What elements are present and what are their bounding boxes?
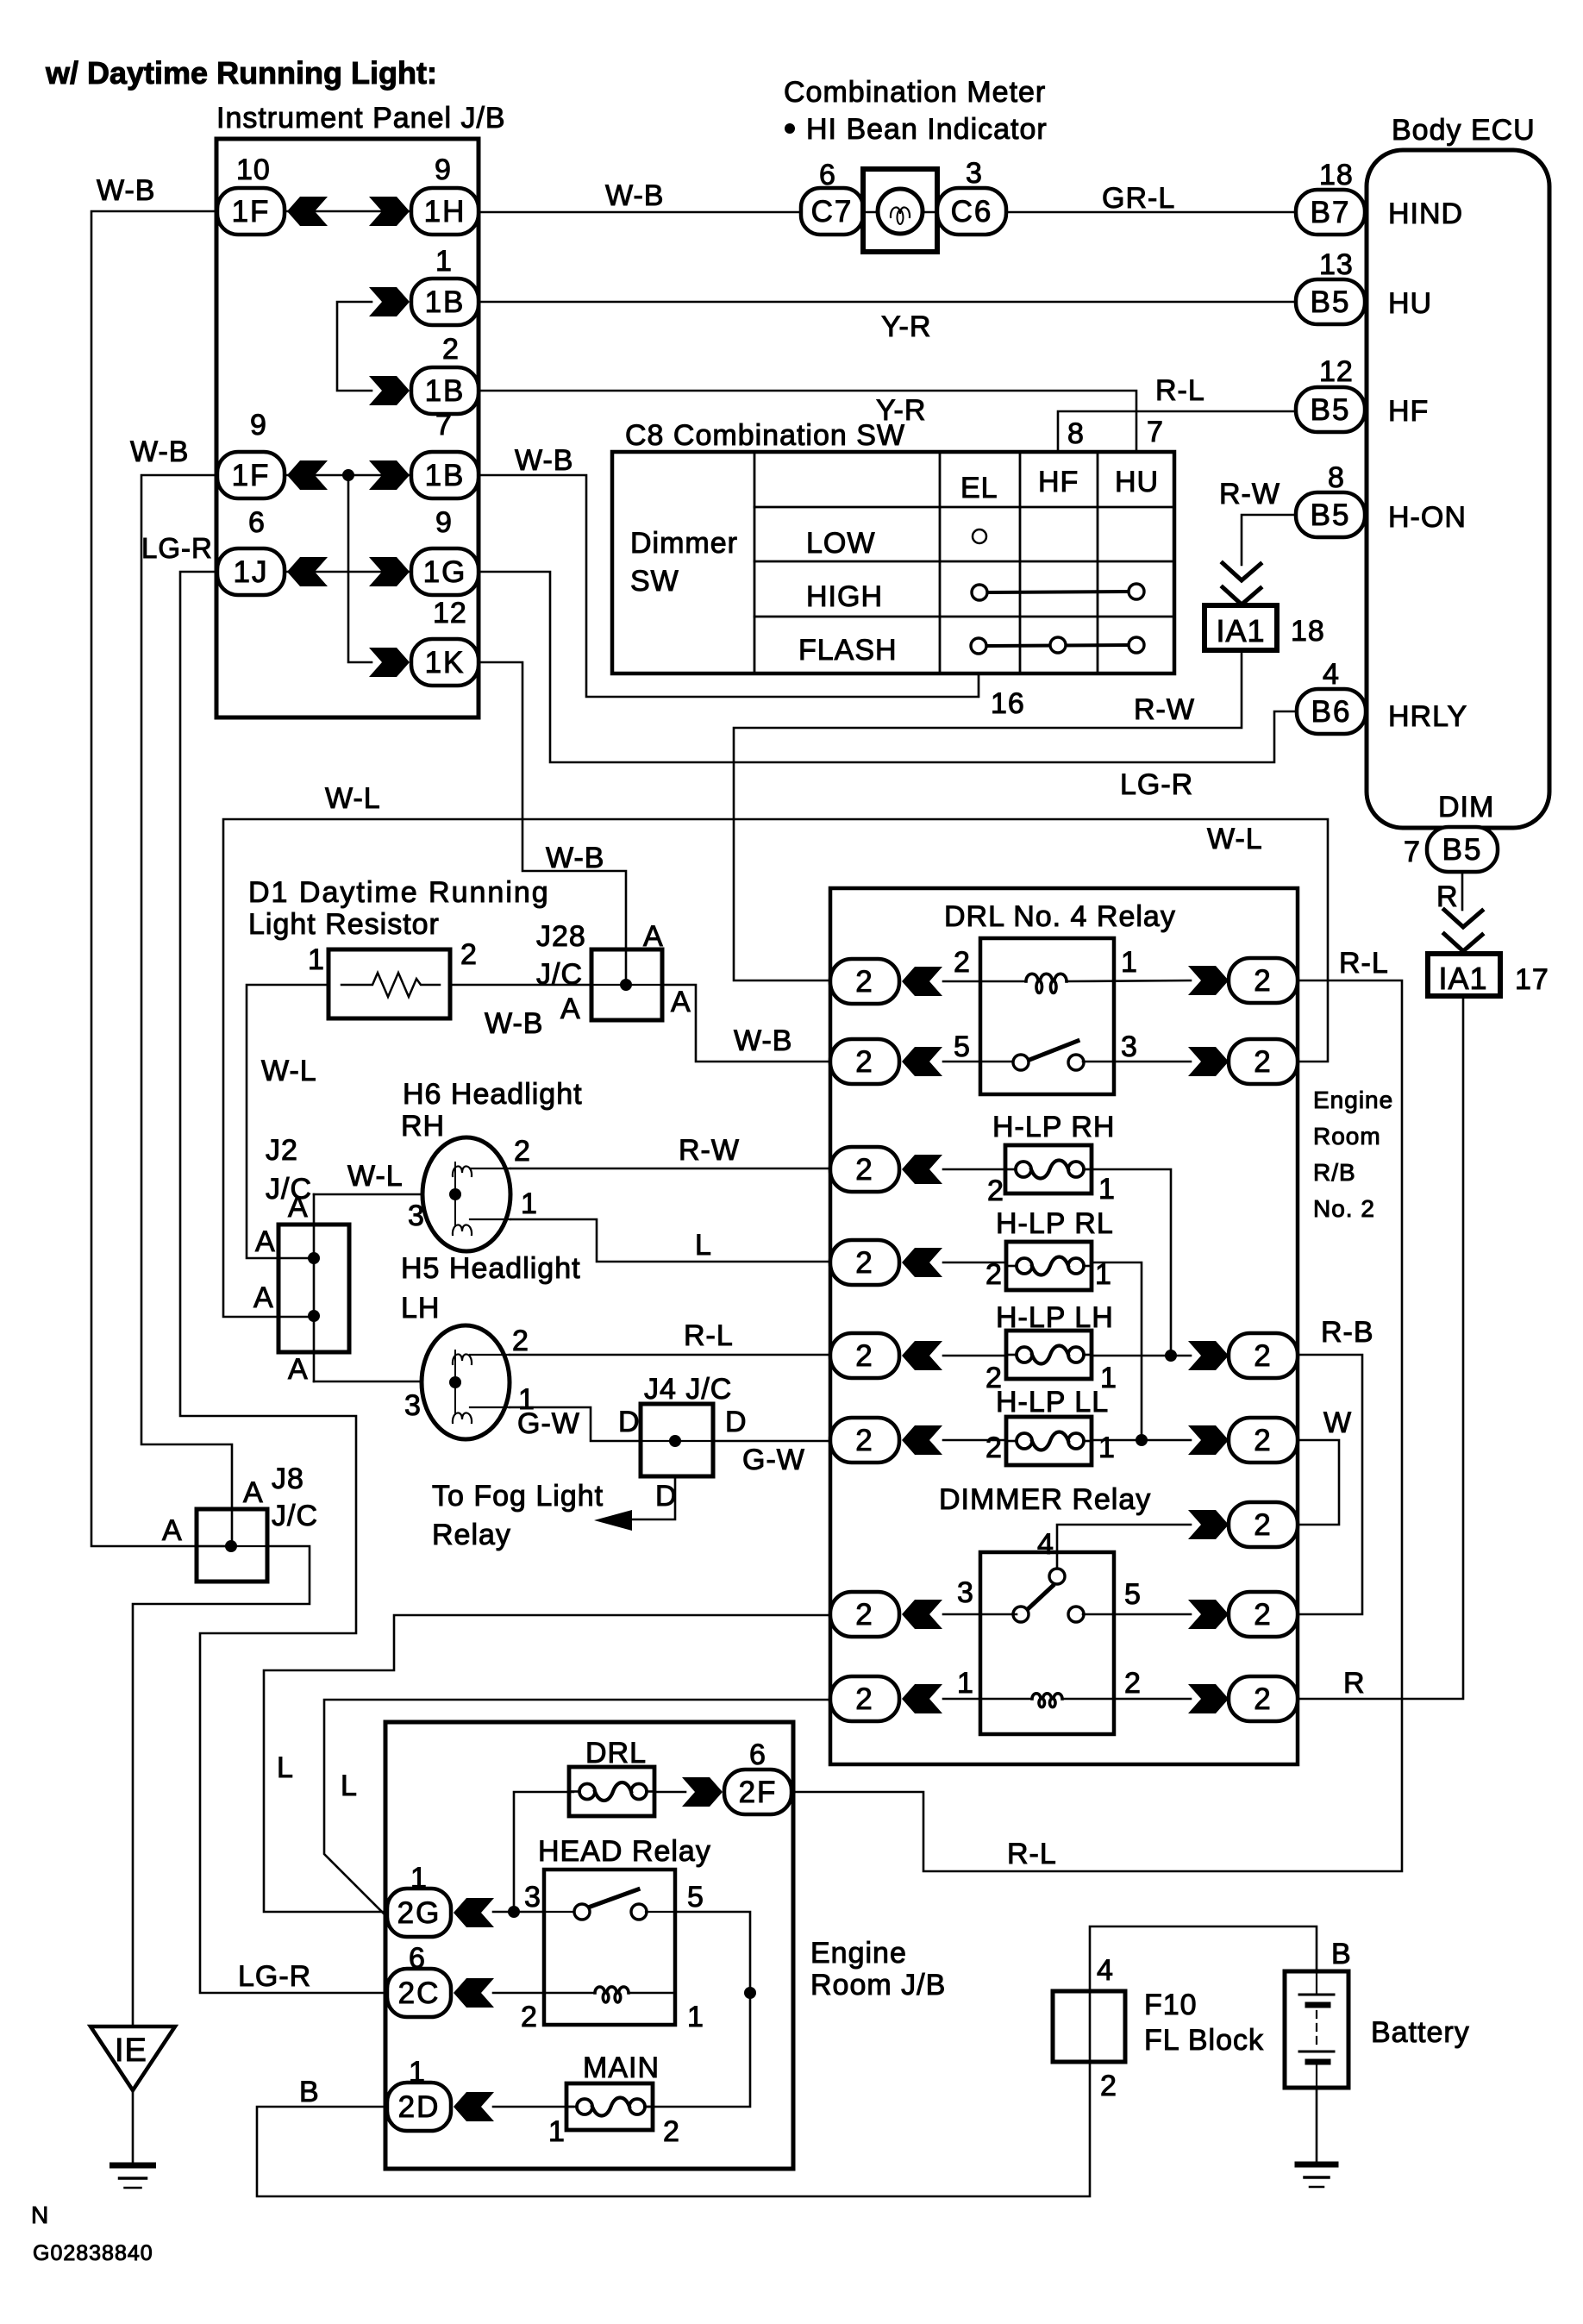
junction block IA1 (pin17) <box>1428 954 1500 996</box>
svg-text:A: A <box>288 1353 309 1386</box>
Engine Room J/B box <box>385 1722 793 2169</box>
wire H-LP RH pin1 down to R-B node <box>1092 1169 1171 1356</box>
wire Y-R 1B pin2 to combination switch HU column <box>479 391 1136 452</box>
svg-text:HIGH: HIGH <box>806 580 883 613</box>
wire R-W H6 pin2 to H-LP RH fuse <box>510 1168 830 1170</box>
svg-text:A: A <box>253 1281 274 1314</box>
headlight H6 RH <box>422 1137 510 1251</box>
svg-text:5: 5 <box>687 1881 704 1914</box>
label F10 FL Block <box>1144 1989 1264 2057</box>
svg-text:3: 3 <box>1121 1030 1138 1063</box>
wire to H-LP RH fuse <box>943 1168 1005 1171</box>
connector 2G (pin1) <box>387 1889 451 1937</box>
svg-text:J2: J2 <box>266 1134 298 1167</box>
svg-text:HU: HU <box>1388 287 1432 320</box>
ground connector IE <box>91 2026 175 2090</box>
wire to H-LP RL fuse <box>943 1262 1006 1264</box>
connector 2 (DIMMER coil output) <box>1229 1676 1298 1721</box>
svg-text:H-LP RH: H-LP RH <box>992 1111 1115 1143</box>
connector 2 (DRL relay coil input) <box>830 959 899 1004</box>
svg-text:1: 1 <box>1098 1173 1116 1206</box>
svg-text:12: 12 <box>1319 355 1354 388</box>
connector 1B (pin1) <box>411 279 479 325</box>
svg-text:2: 2 <box>855 965 873 999</box>
svg-text:Room J/B: Room J/B <box>810 1969 946 2001</box>
connector B7 (pin18) <box>1296 190 1365 235</box>
svg-text:2: 2 <box>855 1339 873 1373</box>
svg-text:L: L <box>695 1229 712 1262</box>
wire combination switch pin16 stub <box>978 673 979 697</box>
svg-text:C7: C7 <box>811 195 854 229</box>
svg-text:Battery: Battery <box>1371 2016 1470 2049</box>
label Engine Room R/B No. 2 <box>1313 1087 1393 1222</box>
svg-text:HIND: HIND <box>1388 197 1463 230</box>
wire L H6 pin1 to H-LP RL fuse <box>510 1219 830 1262</box>
svg-text:2: 2 <box>442 333 460 366</box>
svg-text:R-L: R-L <box>1155 374 1205 407</box>
svg-text:16: 16 <box>991 687 1025 720</box>
svg-text:2: 2 <box>987 1175 1004 1207</box>
svg-text:HU: HU <box>1115 466 1159 498</box>
svg-text:18: 18 <box>1291 615 1325 648</box>
svg-text:2: 2 <box>855 1424 873 1457</box>
svg-text:W: W <box>1323 1406 1352 1439</box>
svg-text:W-B: W-B <box>546 842 604 874</box>
connector 2C (pin6) <box>387 1969 451 2017</box>
arrow into DIMMER pin3 <box>902 1600 942 1629</box>
svg-text:D1 Daytime Running: D1 Daytime Running <box>248 876 550 909</box>
connector 2 (DRL relay coil output) <box>1229 958 1298 1003</box>
svg-text:1: 1 <box>521 1187 538 1220</box>
svg-text:B5: B5 <box>1311 285 1351 319</box>
wire DRL fuse to 2F <box>654 1791 685 1794</box>
arrow into 1J <box>287 557 328 586</box>
arrow out DIMMER pin2 <box>1188 1684 1229 1713</box>
connector 1G (pin9) <box>411 548 479 595</box>
svg-text:W-L: W-L <box>261 1055 317 1087</box>
svg-text:2: 2 <box>512 1325 529 1357</box>
headlight H5 LH <box>422 1325 510 1439</box>
wire LG-R from 1J pin6 down to Engine Room J/B 2C <box>180 572 387 1993</box>
connector 2 (H-LP RH input) <box>830 1147 899 1192</box>
wire L to DIMMER relay coil pin1 <box>324 1700 830 1916</box>
wire W-B J8 to IE <box>133 1546 310 2026</box>
svg-text:H-ON: H-ON <box>1388 501 1467 534</box>
junction connector J2 <box>278 1225 349 1352</box>
svg-text:Body ECU: Body ECU <box>1392 114 1536 147</box>
arrow into 1F <box>287 197 328 226</box>
svg-text:J8: J8 <box>272 1463 304 1495</box>
wire R IA1 pin17 to DIMMER relay coil output <box>1298 996 1463 1699</box>
svg-text:LH: LH <box>401 1292 440 1325</box>
svg-text:1H: 1H <box>424 195 466 229</box>
svg-text:R: R <box>1343 1667 1366 1700</box>
svg-text:Combination Meter: Combination Meter <box>784 76 1046 109</box>
svg-text:2: 2 <box>1254 1045 1272 1079</box>
svg-text:A: A <box>288 1191 309 1224</box>
svg-text:2: 2 <box>460 938 478 971</box>
arrow out R-B <box>1188 1341 1229 1370</box>
svg-text:2: 2 <box>1254 1682 1272 1716</box>
wire W-L long run to DRL relay switch output <box>223 819 1328 1317</box>
svg-text:7: 7 <box>1147 416 1164 448</box>
wire R-L H5 pin2 to H-LP LH fuse <box>510 1354 830 1356</box>
svg-text:L: L <box>341 1770 358 1802</box>
svg-text:B5: B5 <box>1442 833 1483 867</box>
svg-text:HF: HF <box>1038 466 1079 498</box>
svg-text:D: D <box>618 1406 641 1438</box>
label H5 Headlight LH <box>401 1252 581 1325</box>
wire H-LP LL pin1 to output with junction <box>1092 1434 1191 1446</box>
svg-text:W-L: W-L <box>325 782 381 815</box>
svg-text:H5 Headlight: H5 Headlight <box>401 1252 581 1285</box>
DRL relay switch <box>1013 1041 1084 1070</box>
svg-text:2: 2 <box>855 1246 873 1280</box>
svg-text:2: 2 <box>1254 1508 1272 1542</box>
svg-text:3: 3 <box>408 1200 425 1232</box>
fuse H-LP RL <box>1006 1242 1092 1290</box>
svg-text:DRL No. 4 Relay: DRL No. 4 Relay <box>944 900 1176 933</box>
svg-text:5: 5 <box>954 1030 971 1063</box>
connector 2 (H-LP LL input) <box>830 1418 899 1463</box>
wire DRL fuse to junction on 2G wire <box>514 1792 573 1912</box>
wire 2C to HEAD relay coil <box>493 1992 595 1995</box>
svg-text:6: 6 <box>749 1738 766 1771</box>
svg-text:8: 8 <box>1328 461 1345 494</box>
wire W-B J28 to DRL relay switch input <box>662 985 830 1062</box>
resistor D1 daytime running light resistor <box>328 949 450 1018</box>
wire R B5 pin7 to IA1 pin17 <box>1461 872 1464 910</box>
svg-text:13: 13 <box>1319 248 1354 281</box>
svg-text:A: A <box>255 1225 276 1258</box>
svg-text:B7: B7 <box>1311 196 1351 229</box>
svg-text:F10: F10 <box>1144 1989 1198 2021</box>
fuse H-LP LL <box>1006 1417 1092 1465</box>
svg-text:7: 7 <box>435 409 453 442</box>
wire W-B 1H to C7 <box>479 211 801 214</box>
svg-text:5: 5 <box>1124 1578 1142 1611</box>
svg-text:B: B <box>299 2076 320 2108</box>
arrow into 1B pin2 <box>369 376 410 405</box>
svg-text:R-L: R-L <box>1339 947 1389 980</box>
svg-text:1F: 1F <box>232 459 271 492</box>
svg-text:B5: B5 <box>1311 393 1351 427</box>
svg-text:To Fog Light: To Fog Light <box>432 1480 604 1513</box>
arrow into DRL relay coil input <box>902 967 942 996</box>
relay HEAD box <box>544 1870 675 2025</box>
svg-text:R-W: R-W <box>1134 693 1195 726</box>
wire 2D to MAIN fuse <box>493 2106 573 2108</box>
HI beam indicator bulb box <box>863 169 937 252</box>
svg-text:C6: C6 <box>951 195 993 229</box>
wire IE to ground <box>132 2090 135 2164</box>
svg-text:6: 6 <box>248 506 266 539</box>
svg-text:2F: 2F <box>739 1776 778 1809</box>
svg-text:IE: IE <box>115 2033 147 2069</box>
svg-text:2: 2 <box>855 1045 873 1079</box>
label Dimmer SW <box>630 527 738 598</box>
connector 2 (R-B output) <box>1229 1333 1298 1378</box>
wire B battery feed via F10 to 2D <box>257 1926 1317 2196</box>
svg-text:2: 2 <box>1124 1667 1142 1700</box>
wire to DRL relay pin5 <box>943 1061 1017 1063</box>
switch contacts FLASH row with bar <box>971 637 1144 654</box>
wire LG-R 1G to B6 <box>479 572 1297 762</box>
arrow into 1K <box>369 648 410 677</box>
svg-text:1: 1 <box>548 2115 566 2148</box>
svg-text:IA1: IA1 <box>1438 961 1487 996</box>
svg-text:1B: 1B <box>425 285 466 319</box>
connector B5 (pin13) <box>1296 279 1365 324</box>
connector 1F (pin9) <box>217 452 285 498</box>
fuse H-LP RH <box>1005 1145 1092 1193</box>
svg-text:LG-R: LG-R <box>238 1960 311 1993</box>
svg-text:FLASH: FLASH <box>798 634 898 667</box>
svg-text:RH: RH <box>401 1110 445 1143</box>
relay DRL No.4 box <box>980 938 1114 1094</box>
arrow into 1G <box>369 557 410 586</box>
switch contacts HIGH row with bar <box>972 584 1144 600</box>
svg-text:1: 1 <box>435 245 453 278</box>
arrow into 2C <box>454 1978 494 2008</box>
svg-text:1: 1 <box>687 2001 704 2033</box>
connector 1B (pin7) <box>411 452 479 498</box>
wire battery to ground <box>1316 2088 1318 2163</box>
svg-text:R-B: R-B <box>1321 1316 1374 1349</box>
svg-text:9: 9 <box>435 153 452 186</box>
wire HEAD relay coil pin1 <box>629 1992 675 1995</box>
svg-text:R-W: R-W <box>1219 478 1280 511</box>
connector 2 (DIMMER pin5 output) <box>1229 1592 1298 1637</box>
arrow into H-LP RL <box>902 1248 942 1277</box>
svg-text:HEAD Relay: HEAD Relay <box>538 1835 711 1868</box>
arrow into 2G <box>454 1898 494 1927</box>
connector 1F (pin10) <box>217 188 285 235</box>
svg-text:LG-R: LG-R <box>1120 768 1193 801</box>
svg-text:3: 3 <box>957 1576 974 1609</box>
wire W-B 1K to J28 <box>479 662 626 985</box>
svg-text:HF: HF <box>1388 395 1429 428</box>
wire R-W B5 pin8 to IA1 <box>1242 515 1296 565</box>
arrow out DRL relay pin3 <box>1188 1047 1229 1076</box>
svg-text:Dimmer: Dimmer <box>630 527 738 560</box>
svg-text:EL: EL <box>960 472 998 504</box>
connector B5 (pin7) <box>1427 827 1498 872</box>
connector 2 (H-LP RL input) <box>830 1240 899 1285</box>
svg-text:1K: 1K <box>425 646 466 680</box>
svg-text:R: R <box>1436 880 1459 913</box>
Body ECU box <box>1367 150 1549 828</box>
wire bulb to C6 <box>923 211 937 214</box>
arrow into 1B pin1 <box>369 287 410 316</box>
svg-text:18: 18 <box>1319 159 1354 191</box>
arrow out DRL relay pin1 <box>1188 966 1229 995</box>
junction connector J4 <box>641 1404 713 1476</box>
svg-text:W-B: W-B <box>130 435 189 468</box>
wire DIMMER pin5 <box>1083 1613 1191 1616</box>
wire W-L J2 junctions to headlights <box>314 1194 455 1381</box>
arrow into 1B pin7 <box>369 460 410 490</box>
svg-text:HRLY: HRLY <box>1388 700 1467 733</box>
svg-text:2: 2 <box>1100 2070 1117 2102</box>
connector 2 (DRL relay switch input) <box>830 1039 899 1084</box>
svg-text:Engine: Engine <box>1313 1087 1393 1113</box>
fuse MAIN <box>566 2083 653 2130</box>
svg-text:G-W: G-W <box>517 1407 580 1440</box>
wire W-B 1B pin7 to combination switch pin16 <box>479 475 979 697</box>
svg-text:B6: B6 <box>1311 695 1352 729</box>
double arrow down to IA1 <box>1223 563 1261 604</box>
battery <box>1285 1971 1348 2088</box>
wire GR-L C6 to B7 <box>1006 211 1296 214</box>
svg-text:R-L: R-L <box>684 1319 734 1352</box>
wire W-L resistor pin1 to J2 <box>247 985 328 1258</box>
relay DIMMER box <box>980 1552 1114 1734</box>
svg-text:2: 2 <box>985 1431 1003 1464</box>
svg-text:4: 4 <box>1097 1954 1114 1987</box>
svg-text:W-B: W-B <box>485 1007 543 1040</box>
connector 1B (pin2) <box>411 367 479 414</box>
svg-text:1: 1 <box>957 1667 974 1700</box>
connector 2 (W output) <box>1229 1418 1298 1463</box>
connector 2D (pin1) <box>387 2083 451 2131</box>
svg-text:J/C: J/C <box>272 1500 318 1532</box>
wire G-W H5 pin1 to J4 <box>510 1407 641 1441</box>
svg-text:Relay: Relay <box>432 1519 511 1551</box>
svg-text:2: 2 <box>954 946 971 979</box>
svg-text:2: 2 <box>514 1135 531 1168</box>
svg-text:12: 12 <box>433 597 467 630</box>
svg-text:4: 4 <box>1323 658 1340 691</box>
arrow into 1F pin9 <box>287 460 328 490</box>
label Combination Meter / HI Bean Indicator <box>784 76 1048 146</box>
svg-text:Engine: Engine <box>810 1937 907 1970</box>
fusible link F10 FL Block <box>1053 1991 1125 2062</box>
wire R-B to DIMMER relay pin5 output <box>1298 1355 1362 1614</box>
wire G-W J4 to H-LP LL fuse <box>713 1440 830 1443</box>
connector 1H (pin9) <box>411 188 479 235</box>
wire loop joining 1B pins 1 and 2 <box>337 302 372 391</box>
wire R-L combination switch HF column to B5 pin12 <box>1058 411 1296 452</box>
connector 2F (pin6) <box>724 1770 791 1814</box>
svg-text:W-L: W-L <box>1207 823 1263 855</box>
wire H-LP RL pin1 down to W node <box>1092 1262 1142 1440</box>
svg-text:7: 7 <box>1404 836 1421 868</box>
arrow out DIMMER pin4 <box>1188 1510 1229 1539</box>
connector B5 (pin12) <box>1296 387 1365 432</box>
label J2 J/C <box>266 1134 312 1206</box>
junction connector J8 <box>197 1509 267 1582</box>
arrow into 1H <box>369 197 410 226</box>
arrow out W <box>1188 1425 1229 1455</box>
label Engine Room J/B <box>810 1937 946 2001</box>
svg-text:1J: 1J <box>234 555 269 589</box>
svg-text:2: 2 <box>855 1682 873 1716</box>
svg-text:2: 2 <box>521 2001 538 2033</box>
arrow to fog light relay <box>594 1510 632 1531</box>
svg-text:2D: 2D <box>398 2090 441 2124</box>
label D1 Daytime Running Light Resistor <box>248 876 550 941</box>
svg-text:H6 Headlight: H6 Headlight <box>403 1078 583 1111</box>
svg-text:Room: Room <box>1313 1123 1381 1149</box>
connector C7 <box>801 188 863 235</box>
wire D J4 to fog light relay <box>633 1476 675 1519</box>
svg-text:A: A <box>560 993 581 1025</box>
svg-text:Instrument Panel J/B: Instrument Panel J/B <box>216 102 506 135</box>
arrow into H-LP LH <box>902 1341 942 1370</box>
svg-text:C8 Combination SW: C8 Combination SW <box>625 419 905 452</box>
svg-text:IA1: IA1 <box>1216 613 1265 648</box>
svg-text:2: 2 <box>1254 1339 1272 1373</box>
arrow into DIMMER coil <box>902 1684 942 1713</box>
svg-text:3: 3 <box>524 1881 541 1914</box>
svg-text:LOW: LOW <box>806 527 875 560</box>
svg-text:A: A <box>162 1514 183 1547</box>
svg-text:1: 1 <box>1121 946 1138 979</box>
wire Y-R 1B pin1 to B5 pin13 <box>479 301 1296 304</box>
svg-text:W-B: W-B <box>515 444 573 477</box>
wire R-W IA1 to DRL relay coil <box>734 650 1242 980</box>
connector 2 (DIMMER coil input) <box>830 1676 899 1721</box>
svg-text:w/ Daytime Running Light:: w/ Daytime Running Light: <box>45 55 437 91</box>
wire W-B from 1F pin9 down to J8 <box>141 475 232 1546</box>
svg-text:2: 2 <box>1254 1598 1272 1632</box>
DIMMER relay coil <box>1032 1694 1062 1707</box>
label To Fog Light Relay <box>432 1480 604 1551</box>
wire HEAD relay pin5 to MAIN fuse junction <box>643 1912 756 2107</box>
svg-text:B5: B5 <box>1311 498 1351 532</box>
svg-text:W-B: W-B <box>734 1024 792 1057</box>
connector 2 (DIMMER pin4 output) <box>1229 1502 1298 1547</box>
svg-text:2G: 2G <box>397 1896 441 1930</box>
label H6 Headlight RH <box>401 1078 583 1143</box>
svg-text:2C: 2C <box>398 1976 441 2010</box>
svg-text:HI Bean Indicator: HI Bean Indicator <box>806 113 1048 146</box>
wire W-B from connector 1F pin10 to left rail x=106 <box>91 211 231 1546</box>
wire W loop to DIMMER relay pin4 output <box>1298 1440 1339 1525</box>
svg-text:2: 2 <box>855 1153 873 1187</box>
svg-text:2: 2 <box>985 1258 1003 1291</box>
arrow into H-LP LL <box>902 1425 942 1455</box>
label J28 J/C <box>536 920 586 991</box>
svg-text:A: A <box>671 986 691 1018</box>
wire 1F-1B interconnect with tap to 1K <box>285 469 411 662</box>
arrow out DIMMER pin5 <box>1188 1600 1229 1629</box>
connector 2 (H-LP LH input) <box>830 1333 899 1378</box>
svg-text:1F: 1F <box>232 195 271 229</box>
switch contact LOW-EL <box>973 529 986 543</box>
ground (IE) <box>113 2165 153 2188</box>
svg-text:G02838840: G02838840 <box>33 2241 153 2265</box>
wire 1F-1H interconnect <box>285 210 411 213</box>
svg-text:2: 2 <box>663 2115 680 2148</box>
svg-text:9: 9 <box>250 409 267 442</box>
fuse DRL <box>569 1767 654 1816</box>
arrow into H-LP RH <box>902 1155 942 1184</box>
svg-text:W-B: W-B <box>97 174 155 207</box>
HEAD relay coil <box>595 1987 629 2002</box>
svg-text:D: D <box>725 1406 748 1438</box>
svg-text:17: 17 <box>1515 963 1549 996</box>
svg-text:W-L: W-L <box>347 1160 404 1193</box>
wire DRL relay coil to pin1 <box>1067 980 1191 981</box>
svg-text:2: 2 <box>1254 964 1272 998</box>
wire to H-LP LL fuse <box>943 1439 1006 1442</box>
Instrument Panel J/B box <box>216 139 479 717</box>
svg-text:N: N <box>31 2202 49 2228</box>
arrow into 2F <box>682 1777 723 1807</box>
wire to DIMMER pin3 <box>943 1613 1017 1616</box>
